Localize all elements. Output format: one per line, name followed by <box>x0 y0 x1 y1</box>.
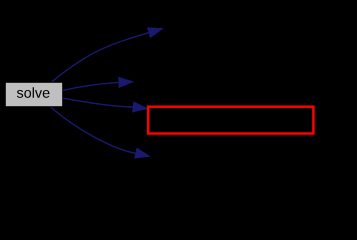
edge solve to red node wire <box>62 98 133 107</box>
highlighted callee node (red border) <box>148 107 313 134</box>
node solve (caller box) <box>5 82 62 106</box>
edge solve to bottom callee arrowhead <box>134 148 150 158</box>
node solve label text <box>17 87 50 98</box>
edge solve to second callee wire <box>62 82 119 90</box>
edge solve to second callee arrowhead <box>118 77 133 88</box>
edge solve to bottom callee wire <box>50 106 136 153</box>
edge solve to top callee arrowhead <box>147 28 163 38</box>
edge solve to top callee wire <box>51 33 149 83</box>
edge solve to red node arrowhead <box>132 102 148 113</box>
